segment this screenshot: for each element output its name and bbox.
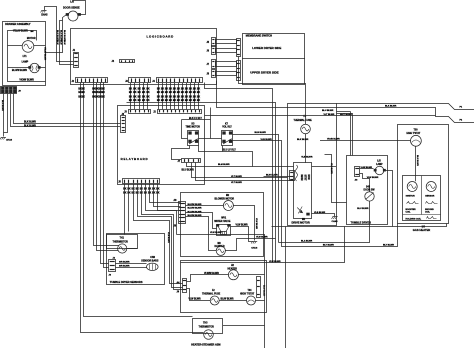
svg-text:A4: A4 <box>177 282 181 285</box>
svg-text:BK: BK <box>152 188 156 190</box>
svg-text:J8: J8 <box>207 74 210 76</box>
svg-text:BK: BK <box>197 100 201 102</box>
svg-text:VLT BLWR: VLT BLWR <box>231 182 242 184</box>
svg-text:BK: BK <box>82 89 86 91</box>
svg-text:R E L A Y B O A R D: R E L A Y B O A R D <box>121 157 148 161</box>
svg-text:VLW BLWR: VLW BLWR <box>256 237 268 239</box>
svg-text:J3: J3 <box>124 112 127 114</box>
svg-text:VLW BLWR: VLW BLWR <box>367 177 379 179</box>
svg-text:BK: BK <box>197 89 201 91</box>
svg-text:BLU BLWR: BLU BLWR <box>182 170 195 172</box>
svg-text:YEL/W BLWR: YEL/W BLWR <box>44 47 46 61</box>
svg-text:J6: J6 <box>109 275 112 277</box>
svg-text:F2: F2 <box>212 290 215 292</box>
svg-text:TH3: TH3 <box>203 322 208 324</box>
svg-text:BK: BK <box>129 100 133 102</box>
svg-text:LOWER DRYER SIDE: LOWER DRYER SIDE <box>252 46 281 50</box>
svg-text:LT1: LT1 <box>23 56 28 58</box>
svg-text:BK: BK <box>146 92 150 94</box>
svg-text:BLB BLWR: BLB BLWR <box>255 132 267 134</box>
svg-text:BK: BK <box>133 92 137 94</box>
svg-text:BK: BK <box>123 192 127 194</box>
svg-text:WV1: WV1 <box>221 218 227 220</box>
svg-text:BLK BLWR: BLK BLWR <box>416 155 418 166</box>
svg-text:BK: BK <box>146 100 150 102</box>
svg-text:BLU LV RLY: BLU LV RLY <box>223 150 237 152</box>
svg-text:TH1: TH1 <box>120 237 125 239</box>
svg-text:J5: J5 <box>207 42 210 44</box>
svg-text:BLOWER MOTOR: BLOWER MOTOR <box>215 198 235 200</box>
svg-text:BK: BK <box>197 97 201 99</box>
svg-text:LAMP: LAMP <box>376 163 383 166</box>
svg-text:BK: BK <box>138 89 142 91</box>
svg-text:THERMISTOR: THERMISTOR <box>113 242 129 244</box>
svg-text:J7: J7 <box>207 64 210 66</box>
svg-text:BLK BLWR: BLK BLWR <box>297 139 309 141</box>
svg-text:S/R BLWR: S/R BLWR <box>119 266 130 268</box>
svg-text:BLU BLWR: BLU BLWR <box>322 110 334 112</box>
svg-text:BK: BK <box>142 89 146 91</box>
svg-text:J4: J4 <box>152 80 155 83</box>
svg-text:BK: BK <box>142 92 146 94</box>
svg-text:J2: J2 <box>113 257 116 259</box>
svg-text:K3: K3 <box>192 124 196 126</box>
svg-text:S43: S43 <box>366 186 371 189</box>
svg-text:VOL RLY: VOL RLY <box>222 127 232 129</box>
svg-text:J6: J6 <box>207 50 210 52</box>
svg-text:J3: J3 <box>125 81 128 83</box>
svg-text:WATER VALVE: WATER VALVE <box>214 220 231 223</box>
svg-text:BK: BK <box>133 89 137 91</box>
svg-text:TIME MOTOR: TIME MOTOR <box>186 127 201 129</box>
svg-text:STRT: STRT <box>304 175 306 182</box>
svg-text:VLW BLWR: VLW BLWR <box>210 232 222 234</box>
svg-text:BK: BK <box>156 192 160 194</box>
svg-text:CN6: CN6 <box>150 257 155 259</box>
svg-text:CHAS: CHAS <box>6 139 13 142</box>
svg-text:MAIN: MAIN <box>300 175 303 181</box>
svg-text:HEATER-STEAMER ASM: HEATER-STEAMER ASM <box>191 344 220 347</box>
svg-text:BK: BK <box>133 100 137 102</box>
svg-text:BK: BK <box>142 100 146 102</box>
svg-text:SENSOR BARS: SENSOR BARS <box>141 259 159 262</box>
svg-text:L/S: L/S <box>377 161 381 163</box>
svg-text:BK: BK <box>129 89 133 91</box>
svg-text:VLW BLWR: VLW BLWR <box>361 167 373 169</box>
svg-text:VLW BLWR: VLW BLWR <box>255 218 257 230</box>
svg-text:M2: M2 <box>226 195 230 197</box>
svg-text:BLU/W BLWR: BLU/W BLWR <box>12 70 27 72</box>
svg-text:BK: BK <box>152 192 156 194</box>
svg-text:VLT BLWR: VLT BLWR <box>324 114 335 116</box>
svg-text:VLB BLWR: VLB BLWR <box>167 232 169 243</box>
svg-text:J4: J4 <box>112 60 115 63</box>
svg-text:COIL: COIL <box>406 212 412 214</box>
svg-text:TUMBLE DRYER: TUMBLE DRYER <box>351 221 372 225</box>
svg-text:VLW BLWR: VLW BLWR <box>236 224 248 226</box>
svg-text:A6: A6 <box>355 179 359 182</box>
svg-text:BL/W BLWR: BL/W BLWR <box>221 299 234 301</box>
svg-text:L O G I C B O A R D: L O G I C B O A R D <box>147 35 174 39</box>
svg-text:BK: BK <box>197 92 201 94</box>
svg-text:VLT BLWR: VLT BLWR <box>231 176 242 178</box>
svg-text:BLU BLWR: BLU BLWR <box>357 208 369 210</box>
svg-text:MOTOR: MOTOR <box>27 38 36 40</box>
svg-text:CHAS: CHAS <box>332 220 339 223</box>
svg-text:BK: BK <box>138 100 142 102</box>
svg-text:VLB BLWR: VLB BLWR <box>301 157 313 159</box>
svg-text:CHAS: CHAS <box>41 14 48 17</box>
svg-text:J9: J9 <box>18 91 21 93</box>
svg-text:DOOR SENSE: DOOR SENSE <box>63 6 80 9</box>
svg-text:HIGH T'STAT: HIGH T'STAT <box>240 292 255 295</box>
svg-text:BLY BLWR: BLY BLWR <box>323 244 334 246</box>
svg-text:COIL: COIL <box>425 212 431 214</box>
svg-text:BLK BLWR: BLK BLWR <box>24 121 36 123</box>
svg-text:J2: J2 <box>72 81 75 83</box>
svg-text:H2: H2 <box>231 265 235 267</box>
svg-text:MEMBRANE SWITCH: MEMBRANE SWITCH <box>246 34 272 38</box>
svg-text:HOLDING COIL: HOLDING COIL <box>406 219 422 221</box>
svg-text:BK: BK <box>156 188 160 190</box>
svg-text:LAMP: LAMP <box>22 60 29 63</box>
svg-text:VLW BLWR: VLW BLWR <box>269 261 281 263</box>
svg-text:BLW: BLW <box>60 40 62 45</box>
svg-text:BK: BK <box>102 92 106 94</box>
svg-text:BLM BLWR: BLM BLWR <box>218 164 230 166</box>
svg-text:BK: BK <box>127 192 131 194</box>
svg-text:K7: K7 <box>225 124 229 126</box>
svg-text:CHAS: CHAS <box>251 247 258 250</box>
svg-text:UPPER DRYER SIDE: UPPER DRYER SIDE <box>250 71 278 75</box>
svg-text:L/S: L/S <box>70 1 74 4</box>
svg-text:BLK BLWR: BLK BLWR <box>1 100 3 111</box>
svg-text:BLK/W BLWR: BLK/W BLWR <box>188 208 202 210</box>
svg-text:BLW: BLW <box>56 40 58 45</box>
svg-text:BLA BLWR: BLA BLWR <box>301 240 313 243</box>
svg-text:A8: A8 <box>174 199 178 202</box>
svg-text:SENSOR: SENSOR <box>425 196 434 198</box>
svg-text:BK: BK <box>82 97 86 99</box>
svg-text:BK: BK <box>82 92 86 94</box>
svg-text:J4: J4 <box>177 291 180 294</box>
svg-text:DRAWER ASSEMBLY: DRAWER ASSEMBLY <box>5 23 31 26</box>
svg-text:J5: J5 <box>118 182 121 184</box>
svg-text:J1: J1 <box>73 50 76 52</box>
svg-text:HIGH T'STAT: HIGH T'STAT <box>407 132 421 135</box>
svg-text:BK: BK <box>123 188 127 190</box>
svg-text:J2: J2 <box>153 112 156 114</box>
svg-text:BK: BK <box>129 97 133 99</box>
svg-text:VIO/W BLWR: VIO/W BLWR <box>19 80 34 82</box>
svg-text:J7: J7 <box>178 161 181 163</box>
svg-text:BLK BLWR: BLK BLWR <box>24 125 36 127</box>
svg-text:BLK BLWR: BLK BLWR <box>385 106 397 108</box>
svg-text:THERMAL FUSE: THERMAL FUSE <box>202 292 221 295</box>
svg-text:TUMBLE DRYER SENSORS: TUMBLE DRYER SENSORS <box>110 281 143 284</box>
svg-text:BK: BK <box>138 97 142 99</box>
svg-text:S/R BLWR: S/R BLWR <box>119 262 130 264</box>
svg-text:M3: M3 <box>218 243 222 245</box>
svg-text:BK: BK <box>138 92 142 94</box>
svg-text:THERMISTOR: THERMISTOR <box>199 326 215 328</box>
svg-text:BLW: BLW <box>63 40 65 45</box>
svg-text:BK: BK <box>102 89 106 91</box>
svg-text:GAS HEATER: GAS HEATER <box>413 228 430 232</box>
svg-text:BK: BK <box>133 97 137 99</box>
svg-text:P2: P2 <box>460 120 463 122</box>
svg-text:P1: P1 <box>460 106 463 108</box>
svg-text:VLB BLWR: VLB BLWR <box>314 212 326 214</box>
svg-text:BK: BK <box>129 92 133 94</box>
svg-text:DRIVE MOTOR: DRIVE MOTOR <box>292 221 310 225</box>
svg-text:T30: T30 <box>414 130 419 132</box>
svg-text:IGNITOR: IGNITOR <box>406 196 415 198</box>
svg-text:RUN: RUN <box>307 175 309 180</box>
svg-text:T34: T34 <box>248 289 253 292</box>
svg-text:BLY BLWR: BLY BLWR <box>383 244 394 246</box>
svg-text:BK: BK <box>127 188 131 190</box>
svg-text:BK: BK <box>146 97 150 99</box>
svg-text:VIO/B BLWR: VIO/B BLWR <box>327 139 340 141</box>
svg-text:BK: BK <box>102 97 106 99</box>
svg-text:BLW BLWR: BLW BLWR <box>266 175 278 177</box>
svg-text:VLB BLWR: VLB BLWR <box>330 163 332 174</box>
svg-text:BK: BK <box>146 89 150 91</box>
svg-text:THERMAL FUSE: THERMAL FUSE <box>294 119 313 122</box>
svg-text:BK: BK <box>142 97 146 99</box>
